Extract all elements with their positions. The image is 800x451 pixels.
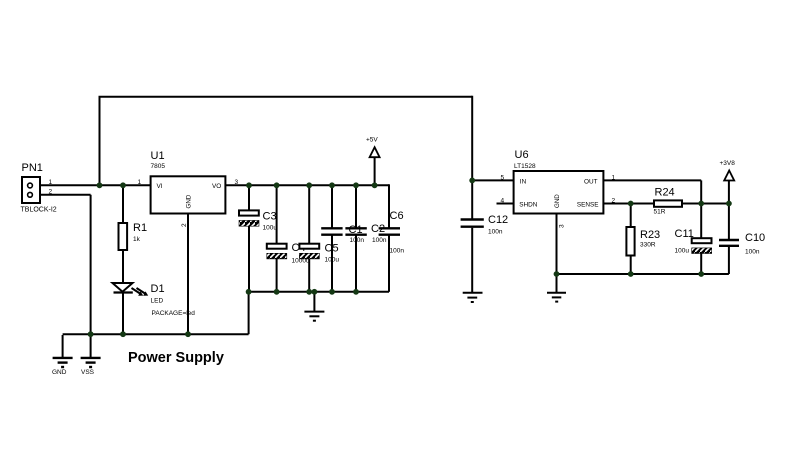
junction node C5 bottom bbox=[306, 289, 312, 295]
wire C3 branch down to bottom-left rail bbox=[248, 292, 250, 334]
pin name OUT bbox=[584, 178, 598, 185]
svg-text:C1: C1 bbox=[349, 224, 363, 236]
junction node PN1/top-bus bbox=[97, 182, 103, 188]
svg-text:+3V8: +3V8 bbox=[720, 160, 736, 167]
junction node mid ground bbox=[312, 289, 318, 295]
junction node C1 top bbox=[329, 182, 335, 188]
svg-text:C12: C12 bbox=[488, 214, 508, 226]
value LT1528 bbox=[514, 163, 536, 170]
svg-text:2: 2 bbox=[612, 198, 616, 205]
pin name GND U1 (rotated) bbox=[185, 194, 192, 208]
junction node U1 GND rail bbox=[185, 331, 191, 337]
junction node VSS rail bbox=[88, 331, 94, 337]
svg-text:OUT: OUT bbox=[584, 178, 598, 185]
label C3 bbox=[263, 211, 277, 223]
label TBLOCK-I2 bbox=[21, 207, 57, 214]
svg-text:1k: 1k bbox=[133, 236, 141, 243]
IC U6 body bbox=[514, 171, 604, 214]
pin name SHDN bbox=[519, 202, 537, 209]
svg-text:3: 3 bbox=[235, 179, 239, 186]
junction node R23 top bbox=[628, 201, 634, 207]
junction node U6 ground bbox=[554, 271, 560, 277]
wire C4 bottom lead bbox=[276, 259, 278, 292]
resistor R24 body bbox=[654, 200, 682, 206]
wire C1 top lead bbox=[331, 185, 333, 228]
pin number 3 U1 bbox=[235, 179, 239, 186]
capacitor C5 (electrolytic) bbox=[299, 244, 319, 259]
wire PN1 pin1 to U1 VI bbox=[40, 184, 151, 186]
pin number 4 U6 bbox=[501, 198, 505, 205]
svg-text:GND: GND bbox=[185, 194, 192, 208]
pin number 3 U6 (rotated) bbox=[559, 224, 566, 228]
pin name VI bbox=[157, 183, 163, 190]
label R1 bbox=[133, 222, 147, 234]
svg-text:U6: U6 bbox=[515, 149, 529, 161]
junction node D1 rail bbox=[120, 331, 126, 337]
label R23 bbox=[640, 229, 660, 241]
value 100u C5 bbox=[325, 257, 340, 264]
junction node C3 top bbox=[246, 182, 252, 188]
value PACKAGE=led bbox=[152, 310, 196, 317]
svg-text:51R: 51R bbox=[654, 209, 666, 216]
capacitor C3 (electrolytic) bbox=[239, 210, 259, 226]
svg-text:C3: C3 bbox=[263, 211, 277, 223]
junction node C1 bottom bbox=[329, 289, 335, 295]
wire R23 top lead bbox=[630, 204, 632, 228]
value 7805 bbox=[151, 163, 166, 170]
svg-text:C11: C11 bbox=[675, 228, 694, 240]
wire U6 SENSE rail bbox=[603, 203, 729, 205]
label C4 bbox=[292, 242, 306, 254]
connector PN1 bbox=[22, 177, 40, 203]
svg-text:100u: 100u bbox=[325, 257, 340, 264]
wire PN1 pin2 vertical down bbox=[90, 195, 92, 334]
svg-text:SHDN: SHDN bbox=[519, 202, 537, 209]
resistor R1 body bbox=[119, 223, 128, 250]
pin number 2 U1 (rotated) bbox=[181, 223, 188, 227]
svg-text:C10: C10 bbox=[745, 232, 765, 244]
capacitor C6 (ceramic) bbox=[379, 228, 400, 234]
ground symbol (U6) bbox=[547, 293, 566, 302]
junction node C11 top bbox=[698, 201, 704, 207]
svg-text:R24: R24 bbox=[655, 187, 675, 199]
wire U1 GND pin down bbox=[187, 214, 189, 335]
wire capacitor-bank bottom rail bbox=[249, 291, 389, 293]
title Power Supply bbox=[128, 350, 224, 366]
value 1000u C4 bbox=[292, 258, 310, 265]
svg-text:R1: R1 bbox=[133, 222, 147, 234]
svg-text:100n: 100n bbox=[350, 237, 365, 244]
wire OUT corner vertical bbox=[700, 180, 702, 203]
wire U6 bottom rail bbox=[557, 273, 729, 275]
wire U6 GND pin down bbox=[556, 214, 558, 293]
value 51R bbox=[654, 209, 666, 216]
wire C11 top lead bbox=[700, 204, 702, 239]
wire GND branch vertical bbox=[62, 335, 64, 358]
net label +5V bbox=[366, 137, 378, 144]
pin number 1 U6 bbox=[612, 175, 616, 182]
LED D1 bbox=[113, 283, 149, 296]
wire C6 top lead bbox=[388, 184, 390, 228]
svg-text:100u: 100u bbox=[675, 248, 690, 255]
svg-text:4: 4 bbox=[501, 198, 505, 205]
wire top-right vertical (bus down to U6 IN) bbox=[471, 96, 473, 181]
svg-text:D1: D1 bbox=[151, 283, 165, 295]
svg-text:2: 2 bbox=[181, 223, 188, 227]
svg-text:LED: LED bbox=[151, 298, 164, 305]
wire bottom-left rail bbox=[63, 333, 249, 335]
junction node C12 top bbox=[469, 178, 475, 184]
wire top-left vertical (PN1 rail up to top bus) bbox=[99, 97, 101, 186]
junction node C4 bottom bbox=[274, 289, 280, 295]
svg-text:VO: VO bbox=[212, 183, 221, 190]
wire C4 top lead bbox=[276, 185, 278, 244]
value 100n C1 bbox=[350, 237, 365, 244]
junction node C2 top bbox=[353, 182, 359, 188]
value 100n C10 bbox=[745, 249, 760, 256]
svg-text:C2: C2 bbox=[371, 223, 385, 235]
svg-text:2: 2 bbox=[49, 189, 53, 196]
svg-text:GND: GND bbox=[554, 194, 561, 208]
svg-text:5: 5 bbox=[501, 175, 505, 182]
label U1 bbox=[151, 150, 165, 162]
label C11 bbox=[675, 228, 694, 240]
ground symbol VSS (left) bbox=[81, 358, 101, 367]
IC U1 body bbox=[151, 176, 226, 213]
label C12 bbox=[488, 214, 508, 226]
wire U6 OUT lead bbox=[603, 179, 701, 181]
svg-text:PACKAGE=led: PACKAGE=led bbox=[152, 310, 196, 317]
label C1 bbox=[349, 224, 363, 236]
svg-text:1: 1 bbox=[49, 179, 53, 186]
label C5 bbox=[325, 243, 339, 255]
svg-text:LT1528: LT1528 bbox=[514, 163, 536, 170]
svg-text:PN1: PN1 bbox=[22, 162, 43, 174]
wire mid ground stem bbox=[313, 292, 315, 312]
svg-text:100n: 100n bbox=[745, 249, 760, 256]
label PN1 bbox=[22, 162, 43, 174]
wire R23 bottom lead bbox=[630, 255, 632, 274]
capacitor C4 (electrolytic) bbox=[267, 244, 287, 259]
svg-text:7805: 7805 bbox=[151, 163, 166, 170]
svg-text:R23: R23 bbox=[640, 229, 660, 241]
value 100n C2 bbox=[372, 237, 387, 244]
label C10 bbox=[745, 232, 765, 244]
value 100n C12 bbox=[488, 229, 503, 236]
wire LED to bottom rail bbox=[122, 292, 124, 334]
wire C2 top lead bbox=[355, 185, 357, 228]
pin name GND U6 (rotated) bbox=[554, 194, 561, 208]
junction node R1 bbox=[120, 182, 126, 188]
value LED bbox=[151, 298, 164, 305]
net label +3V8 bbox=[720, 160, 736, 167]
svg-text:GND: GND bbox=[52, 369, 67, 376]
value 330R bbox=[640, 242, 656, 249]
capacitor C11 (electrolytic) bbox=[692, 238, 712, 253]
label R24 bbox=[655, 187, 675, 199]
junction node +5V bbox=[372, 182, 378, 188]
capacitor C12 (ceramic) bbox=[461, 220, 484, 227]
wire C6 bottom lead bbox=[388, 235, 390, 292]
junction node C2 bottom bbox=[353, 289, 359, 295]
svg-text:100n: 100n bbox=[372, 237, 387, 244]
pin name VO bbox=[212, 183, 221, 190]
ground symbol (C12) bbox=[463, 293, 483, 302]
svg-text:U1: U1 bbox=[151, 150, 165, 162]
net label VSS bbox=[81, 369, 95, 376]
wire U6 SHDN stub bbox=[497, 203, 514, 205]
wire +5V stem bbox=[374, 152, 376, 186]
power symbol +5V bbox=[370, 147, 380, 157]
svg-text:330R: 330R bbox=[640, 242, 656, 249]
svg-text:100n: 100n bbox=[488, 229, 503, 236]
svg-text:VI: VI bbox=[157, 183, 163, 190]
capacitor C10 (ceramic) bbox=[719, 240, 739, 246]
svg-text:100u: 100u bbox=[263, 225, 278, 232]
wire VSS branch vertical bbox=[90, 334, 92, 357]
wire C3 top lead bbox=[248, 185, 250, 211]
svg-text:TBLOCK-I2: TBLOCK-I2 bbox=[21, 207, 57, 214]
wire C2 bottom lead bbox=[355, 235, 357, 292]
svg-text:IN: IN bbox=[520, 178, 527, 185]
junction node C4 top bbox=[274, 182, 280, 188]
svg-text:1: 1 bbox=[138, 179, 142, 186]
junction node C11 bottom bbox=[698, 271, 704, 277]
wire C3 bottom lead bbox=[248, 226, 250, 292]
pin name IN bbox=[520, 178, 527, 185]
value 100u C11 bbox=[675, 248, 690, 255]
wire top horizontal bus bbox=[99, 96, 473, 98]
label C6 bbox=[390, 210, 404, 222]
svg-text:100n: 100n bbox=[390, 248, 405, 255]
pin number 5 U6 bbox=[501, 175, 505, 182]
junction node R23 bottom bbox=[628, 271, 634, 277]
junction node C3 bottom bbox=[246, 289, 252, 295]
value 100n C6 bbox=[390, 248, 405, 255]
label U6 bbox=[515, 149, 529, 161]
wire C12 top lead bbox=[471, 180, 473, 218]
ground symbol GND (left) bbox=[53, 358, 73, 367]
power symbol +3V8 bbox=[724, 171, 734, 181]
pin number 2 U6 bbox=[612, 198, 616, 205]
pin number 2 PN1 bbox=[49, 189, 53, 196]
junction node C5 top bbox=[306, 182, 312, 188]
wire C1 bottom lead bbox=[331, 235, 333, 292]
svg-text:SENSE: SENSE bbox=[577, 202, 599, 209]
pin number 1 U1 bbox=[138, 179, 142, 186]
pin name SENSE bbox=[577, 202, 599, 209]
wire PN1 pin2 horizontal bbox=[40, 194, 91, 196]
wire C10 bottom lead bbox=[728, 246, 730, 274]
svg-text:C5: C5 bbox=[325, 243, 339, 255]
wire U1 VO output rail bbox=[225, 184, 389, 186]
wire R1 top bbox=[122, 185, 124, 223]
wire U6 IN lead bbox=[472, 179, 513, 181]
resistor R23 body bbox=[626, 227, 634, 256]
svg-text:VSS: VSS bbox=[81, 369, 95, 376]
capacitor C1 (ceramic) bbox=[321, 228, 342, 234]
svg-text:Power Supply: Power Supply bbox=[128, 350, 224, 366]
svg-text:3: 3 bbox=[559, 224, 566, 228]
pin number 1 PN1 bbox=[49, 179, 53, 186]
wire C5 top lead bbox=[308, 185, 310, 244]
wire C12 bottom lead bbox=[471, 228, 473, 292]
wire C5 bottom lead bbox=[308, 259, 310, 292]
svg-text:C6: C6 bbox=[390, 210, 404, 222]
wire C11 bottom lead bbox=[700, 253, 702, 274]
net label GND bbox=[52, 369, 67, 376]
value 1k bbox=[133, 236, 141, 243]
wire R1 bottom to LED bbox=[122, 250, 124, 284]
svg-text:+5V: +5V bbox=[366, 137, 378, 144]
junction node +3V8 bbox=[726, 201, 732, 207]
capacitor C2 (ceramic) bbox=[345, 228, 366, 234]
ground symbol (cap bank) bbox=[304, 312, 324, 321]
wire C10 top lead bbox=[728, 204, 730, 241]
label C2 bbox=[371, 223, 385, 235]
svg-text:1: 1 bbox=[612, 175, 616, 182]
wire +3V8 stem bbox=[728, 175, 730, 204]
label D1 bbox=[151, 283, 165, 295]
value 100u C3 bbox=[263, 225, 278, 232]
